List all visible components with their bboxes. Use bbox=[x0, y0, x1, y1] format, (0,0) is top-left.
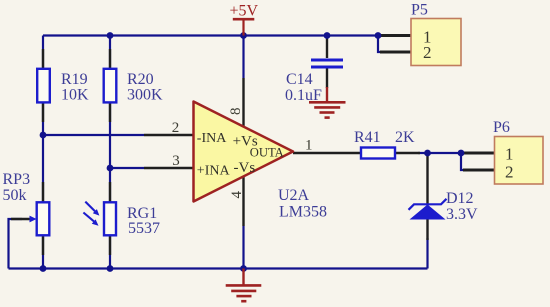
wire second column (R20/RG1 branch) bbox=[109, 36, 111, 269]
wire left column (R19/RP3 branch) bbox=[42, 36, 44, 269]
pin lead op-amp pin 4 bbox=[242, 177, 244, 227]
connector P6 bbox=[493, 119, 543, 184]
wire +INA node (pin 3) bbox=[110, 167, 144, 169]
pin lead RG1 bottom bbox=[109, 235, 111, 255]
resistor R20 bbox=[104, 69, 163, 104]
wire +Vs supply drop bbox=[242, 36, 244, 79]
svg-text:-INA: -INA bbox=[197, 131, 227, 146]
svg-text:R20: R20 bbox=[127, 71, 154, 88]
svg-text:C14: C14 bbox=[286, 71, 313, 88]
pin lead D12 bottom bbox=[426, 219, 428, 240]
wire bottom ground rail bbox=[9, 267, 428, 269]
node junction on rail at C14 bbox=[324, 32, 331, 39]
wire P5 pin2 drop bbox=[378, 36, 383, 53]
svg-text:300K: 300K bbox=[127, 87, 163, 104]
wire P6 pin2 drop bbox=[461, 153, 466, 170]
pin lead R41 right bbox=[395, 152, 420, 154]
pin lead RP3 top bbox=[42, 182, 44, 203]
svg-text:3.3V: 3.3V bbox=[446, 206, 478, 223]
wire D12 lower lead to rail bbox=[426, 238, 428, 269]
node junction output D12 bbox=[424, 150, 431, 157]
pin lead R20 top bbox=[109, 49, 111, 69]
node junction +INA bbox=[107, 165, 114, 172]
pin lead D12 top bbox=[426, 155, 428, 204]
node junction rail ground bbox=[240, 265, 247, 272]
wire -INA node (pin 2) bbox=[43, 134, 144, 136]
node junction on rail at P5 bbox=[375, 32, 382, 39]
node junction on rail at +5V / op-amp bbox=[240, 32, 247, 39]
op-amp U2A bbox=[194, 102, 328, 221]
pin lead C14 bottom bbox=[326, 68, 328, 88]
zener diode D12 bbox=[409, 190, 479, 223]
svg-text:-Vs: -Vs bbox=[234, 160, 256, 176]
capacitor C14 bbox=[285, 60, 343, 104]
wire top +5V rail bbox=[43, 34, 378, 36]
svg-text:+5V: +5V bbox=[230, 3, 259, 20]
svg-text:2: 2 bbox=[423, 43, 432, 62]
resistor R19 bbox=[37, 69, 89, 104]
svg-text:2: 2 bbox=[505, 163, 514, 182]
svg-text:50k: 50k bbox=[3, 187, 27, 204]
svg-text:4: 4 bbox=[229, 190, 245, 198]
svg-text:1: 1 bbox=[305, 138, 313, 154]
node junction output P6 bbox=[458, 150, 465, 157]
svg-text:2K: 2K bbox=[395, 129, 415, 146]
pin lead P6 pin 2 bbox=[463, 169, 495, 172]
svg-text:R19: R19 bbox=[61, 71, 88, 88]
svg-text:R41: R41 bbox=[354, 129, 381, 146]
potentiometer RP3 bbox=[3, 171, 50, 235]
resistor R41 bbox=[354, 129, 415, 159]
pin lead op-amp pin 3 bbox=[144, 167, 194, 169]
wire output node to P6 bbox=[418, 152, 461, 154]
svg-text:8: 8 bbox=[228, 107, 244, 115]
ground below C14 bbox=[309, 87, 346, 118]
svg-text:D12: D12 bbox=[446, 190, 474, 207]
photoresistor RG1 bbox=[83, 202, 160, 237]
node junction -INA bbox=[40, 132, 47, 139]
svg-text:10K: 10K bbox=[61, 87, 89, 104]
power symbol +5V bbox=[230, 3, 259, 36]
ground at bottom rail bbox=[226, 269, 262, 302]
connector P5 bbox=[411, 2, 461, 66]
pin lead R20 bottom bbox=[109, 102, 111, 122]
svg-text:U2A: U2A bbox=[278, 187, 310, 204]
svg-text:2: 2 bbox=[172, 120, 180, 136]
svg-text:1: 1 bbox=[505, 145, 514, 164]
svg-text:P6: P6 bbox=[493, 119, 510, 136]
svg-text:P5: P5 bbox=[411, 2, 428, 19]
pin lead R19 bottom bbox=[42, 102, 44, 122]
wire RP3 wiper to ground rail bbox=[9, 219, 23, 269]
pin lead op-amp pin 1 / R41 left bbox=[293, 152, 361, 154]
pin lead R19 top bbox=[42, 49, 44, 69]
pin lead RG1 top bbox=[109, 182, 111, 203]
pin lead op-amp pin 8 bbox=[242, 78, 244, 127]
svg-text:OUTA: OUTA bbox=[250, 146, 284, 160]
node junction rail RP3 bbox=[40, 265, 47, 272]
pin lead P5 pin 2 bbox=[380, 51, 411, 54]
svg-text:5537: 5537 bbox=[128, 220, 160, 237]
pin lead C14 top bbox=[326, 36, 328, 59]
pin lead RP3 bottom bbox=[42, 235, 44, 255]
svg-text:LM358: LM358 bbox=[279, 204, 327, 221]
node junction rail RG1 bbox=[107, 265, 114, 272]
node junction on rail at R20 bbox=[107, 32, 114, 39]
pin lead op-amp pin 2 bbox=[144, 134, 194, 136]
wire -Vs to ground rail bbox=[242, 226, 244, 269]
pin lead P6 pin 1 bbox=[463, 152, 495, 155]
pin lead P5 pin 1 bbox=[380, 34, 411, 37]
svg-text:+INA: +INA bbox=[197, 163, 231, 178]
svg-text:3: 3 bbox=[172, 153, 180, 169]
svg-text:RP3: RP3 bbox=[3, 171, 31, 188]
